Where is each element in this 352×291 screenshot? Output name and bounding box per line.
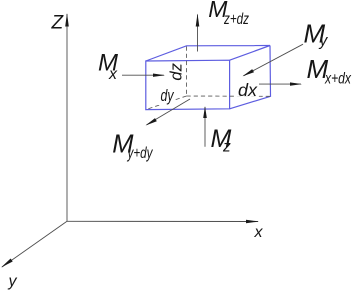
element box front face: [146, 60, 230, 109]
svg-text:y: y: [319, 33, 329, 50]
svg-text:y+dy: y+dy: [127, 145, 154, 162]
svg-text:z: z: [222, 139, 231, 156]
moment arrow M_z: [203, 106, 207, 147]
x-axis: [67, 220, 259, 224]
moment arrow M_y: [243, 44, 304, 76]
hidden edge back-left vertical: [186, 47, 188, 97]
label M_x: [98, 49, 118, 83]
svg-text:x: x: [108, 66, 118, 83]
axis label Z: [51, 12, 65, 33]
svg-text:x+dx: x+dx: [324, 71, 352, 88]
label M_y+dy: [112, 130, 153, 162]
hidden edge bottom-left depth: [146, 96, 187, 110]
svg-text:y: y: [8, 273, 18, 290]
svg-text:x: x: [254, 224, 264, 241]
moment arrow M_x: [122, 74, 165, 77]
svg-text:z+dz: z+dz: [223, 11, 249, 28]
label M_z+dz: [208, 0, 249, 28]
dimension label dy: [158, 87, 175, 105]
axis label x: [254, 224, 264, 241]
hidden edge back-bottom horizontal: [187, 95, 271, 97]
axis label y: [8, 273, 18, 290]
element box top face edges: [146, 46, 270, 62]
label M_y: [304, 19, 329, 50]
dimension label dx: [237, 80, 260, 100]
svg-text:dz: dz: [167, 63, 186, 81]
moment arrow M_z+dz: [196, 14, 200, 52]
element box right face edges: [230, 46, 271, 109]
svg-text:dx: dx: [238, 80, 258, 100]
y-axis: [1, 221, 67, 267]
label M_x+dx: [307, 54, 352, 88]
z-axis: [65, 13, 69, 221]
svg-text:dy: dy: [161, 87, 175, 105]
label M_z: [211, 125, 232, 156]
dimension label dz (rotated): [167, 63, 186, 81]
svg-text:Z: Z: [51, 12, 65, 33]
moment arrow M_x+dx: [258, 82, 302, 85]
moment arrow M_y+dy: [146, 99, 191, 126]
